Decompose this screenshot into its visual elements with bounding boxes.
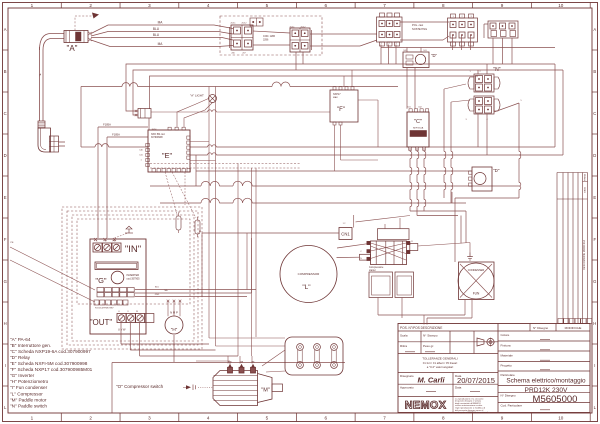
svg-text:3: 3 bbox=[148, 3, 151, 8]
svg-text:SOSTEYING: SOSTEYING bbox=[412, 27, 427, 31]
svg-text:"D": "D" bbox=[431, 53, 438, 58]
svg-text:BLU: BLU bbox=[153, 33, 160, 37]
svg-text:I: I bbox=[594, 363, 595, 368]
svg-text:U V W: U V W bbox=[118, 328, 126, 332]
svg-text:starter: starter bbox=[369, 269, 376, 272]
svg-text:A: A bbox=[593, 27, 596, 32]
svg-text:"A" PA-64: "A" PA-64 bbox=[10, 337, 31, 342]
svg-text:G: G bbox=[4, 279, 7, 284]
svg-text:"M": "M" bbox=[261, 388, 270, 394]
svg-text:COMPRESSOR: COMPRESSOR bbox=[298, 272, 321, 276]
svg-text:cod.357905: cod.357905 bbox=[127, 278, 141, 281]
svg-text:POL. cavi: POL. cavi bbox=[412, 23, 424, 27]
svg-text:Particolare: Particolare bbox=[501, 373, 516, 377]
svg-text:"G" Inverter: "G" Inverter bbox=[10, 373, 35, 378]
svg-text:Cod. Particolare: Cod. Particolare bbox=[501, 403, 523, 407]
svg-text:"F" Scheda NXP17 cod.307900: "F" Scheda NXP17 cod.307900985M01 bbox=[10, 367, 93, 372]
svg-text:M. Carli: M. Carli bbox=[417, 376, 445, 385]
svg-text:"L": "L" bbox=[302, 284, 311, 291]
svg-text:FIRMA: FIRMA bbox=[584, 174, 587, 181]
svg-text:6: 6 bbox=[324, 416, 327, 421]
svg-text:"M" Paddle motor: "M" Paddle motor bbox=[10, 397, 47, 402]
svg-text:C: C bbox=[593, 111, 596, 116]
svg-text:"E" Scheda NXFI-5M cod.3079: "E" Scheda NXFI-5M cod.307900998 bbox=[10, 361, 88, 366]
svg-text:PRD12K 230V: PRD12K 230V bbox=[525, 387, 568, 394]
svg-text:"A": "A" bbox=[66, 44, 77, 53]
svg-text:"D" Relay: "D" Relay bbox=[10, 355, 31, 360]
svg-text:2: 2 bbox=[89, 416, 92, 421]
svg-text:H: H bbox=[4, 321, 7, 326]
svg-text:E: E bbox=[593, 195, 596, 200]
svg-text:Data: Data bbox=[455, 386, 462, 390]
svg-text:NXFI 5M cod.: NXFI 5M cod. bbox=[151, 134, 165, 136]
svg-text:"E": "E" bbox=[162, 151, 173, 160]
svg-text:204.2: 204.2 bbox=[300, 27, 306, 29]
svg-text:M5605000: M5605000 bbox=[533, 394, 578, 405]
svg-text:perseguito a NEMOXinternatio: perseguito a NEMOXinternational bbox=[455, 411, 488, 414]
svg-text:Progetto: Progetto bbox=[501, 363, 513, 367]
svg-text:H: H bbox=[593, 321, 596, 326]
svg-text:9: 9 bbox=[501, 416, 504, 421]
svg-text:GND: GND bbox=[155, 294, 160, 296]
svg-text:N° Disegno: N° Disegno bbox=[533, 326, 549, 330]
svg-text:Colore: Colore bbox=[501, 333, 510, 337]
svg-text:NEMOX: NEMOX bbox=[405, 400, 447, 412]
svg-text:4: 4 bbox=[207, 416, 210, 421]
svg-text:10: 10 bbox=[558, 416, 564, 421]
svg-text:F: F bbox=[594, 237, 597, 242]
svg-text:5: 5 bbox=[266, 3, 269, 8]
svg-text:"OUT": "OUT" bbox=[90, 318, 113, 327]
svg-text:Ritira: Ritira bbox=[400, 344, 407, 348]
svg-text:5: 5 bbox=[266, 416, 269, 421]
svg-text:BLU: BLU bbox=[155, 287, 159, 289]
svg-text:F185A: F185A bbox=[112, 133, 120, 137]
svg-text:a "0.2" valori angolari: a "0.2" valori angolari bbox=[427, 365, 454, 369]
svg-text:NXP17: NXP17 bbox=[333, 93, 341, 96]
svg-text:BLU: BLU bbox=[153, 27, 160, 31]
svg-text:F: F bbox=[4, 237, 7, 242]
svg-text:7: 7 bbox=[383, 416, 386, 421]
svg-text:C: C bbox=[4, 111, 7, 116]
svg-text:"D": "D" bbox=[493, 168, 500, 173]
svg-text:N° Disegno: N° Disegno bbox=[501, 394, 517, 398]
svg-text:204.1: 204.1 bbox=[230, 23, 236, 25]
svg-text:"C": "C" bbox=[414, 119, 422, 125]
svg-text:"A" LIGHT: "A" LIGHT bbox=[190, 94, 204, 98]
svg-text:Schema elettrico/montaggio: Schema elettrico/montaggio bbox=[506, 378, 586, 385]
svg-text:CN1: CN1 bbox=[341, 232, 350, 237]
svg-text:307900998: 307900998 bbox=[151, 137, 163, 139]
svg-text:"I" Fun condenser: "I" Fun condenser bbox=[10, 385, 48, 390]
svg-text:6: 6 bbox=[324, 3, 327, 8]
svg-text:B: B bbox=[4, 69, 7, 74]
svg-text:Scala: Scala bbox=[400, 334, 408, 338]
svg-text:Peso gr.: Peso gr. bbox=[423, 344, 434, 348]
svg-text:E: E bbox=[4, 195, 7, 200]
svg-text:7: 7 bbox=[383, 3, 386, 8]
svg-text:10: 10 bbox=[558, 3, 564, 8]
svg-text:NXP19-6A: NXP19-6A bbox=[413, 127, 424, 130]
svg-text:2: 2 bbox=[89, 3, 92, 8]
svg-text:NXFI: NXFI bbox=[152, 129, 157, 131]
svg-text:9: 9 bbox=[501, 3, 504, 8]
svg-text:I: I bbox=[5, 363, 6, 368]
svg-text:"O" Compressor switch: "O" Compressor switch bbox=[116, 384, 164, 389]
svg-text:Finitura: Finitura bbox=[501, 344, 511, 348]
svg-text:"H": "H" bbox=[171, 327, 178, 332]
svg-text:"N" Paddle switch: "N" Paddle switch bbox=[10, 403, 47, 408]
svg-text:N° Stampo: N° Stampo bbox=[423, 334, 438, 338]
svg-text:Materiale: Materiale bbox=[501, 353, 514, 357]
svg-text:B: B bbox=[593, 69, 596, 74]
svg-text:204.1: 204.1 bbox=[289, 27, 295, 29]
svg-text:"IN": "IN" bbox=[125, 244, 141, 255]
svg-text:CONDENSER: CONDENSER bbox=[468, 268, 485, 272]
svg-text:"C" Scheda NXP19-6A cod.307: "C" Scheda NXP19-6A cod.307900997 bbox=[10, 349, 91, 354]
svg-text:20/07/2015: 20/07/2015 bbox=[457, 376, 495, 385]
svg-text:MAX: MAX bbox=[333, 96, 338, 99]
svg-text:D: D bbox=[593, 153, 596, 158]
svg-text:A: A bbox=[4, 27, 7, 32]
svg-text:"B" Interruttore gen.: "B" Interruttore gen. bbox=[10, 343, 51, 348]
svg-text:F185A: F185A bbox=[103, 123, 111, 127]
svg-text:POS. N°/POS DESCRIZIONE: POS. N°/POS DESCRIZIONE bbox=[400, 326, 442, 330]
svg-text:W: W bbox=[136, 311, 138, 313]
svg-text:Approvato: Approvato bbox=[400, 386, 414, 390]
svg-text:DESCRIZIONE MODIFICA: DESCRIZIONE MODIFICA bbox=[583, 240, 586, 270]
svg-text:G: G bbox=[593, 279, 596, 284]
svg-text:"H" Potenziometro: "H" Potenziometro bbox=[10, 379, 49, 384]
svg-text:DATA: DATA bbox=[584, 187, 587, 193]
svg-text:1: 1 bbox=[31, 416, 34, 421]
svg-text:FUN: FUN bbox=[473, 292, 480, 296]
svg-text:1: 1 bbox=[31, 3, 34, 8]
svg-text:8: 8 bbox=[442, 416, 445, 421]
svg-text:3296: 3296 bbox=[263, 39, 269, 42]
svg-text:Disegnato: Disegnato bbox=[400, 374, 414, 378]
svg-text:8: 8 bbox=[442, 3, 445, 8]
svg-text:"F": "F" bbox=[337, 107, 345, 113]
svg-text:"L" Compressor: "L" Compressor bbox=[10, 391, 43, 396]
svg-text:3: 3 bbox=[148, 416, 151, 421]
svg-text:MODIFICHE: MODIFICHE bbox=[565, 326, 582, 330]
svg-text:"G": "G" bbox=[95, 276, 106, 285]
svg-text:204.2: 204.2 bbox=[241, 23, 247, 25]
svg-text:4: 4 bbox=[207, 3, 210, 8]
svg-text:P24 DCM FWD REV: P24 DCM FWD REV bbox=[95, 308, 114, 310]
svg-text:D: D bbox=[4, 153, 7, 158]
